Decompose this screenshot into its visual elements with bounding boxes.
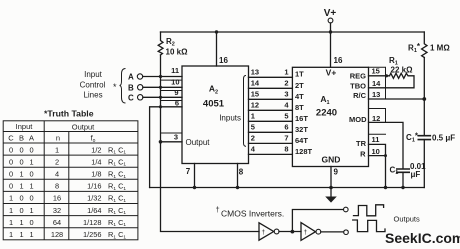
- wire input C to pin 9: [143, 96, 182, 98]
- svg-text:64: 64: [53, 218, 61, 227]
- svg-text:1/4: 1/4: [91, 157, 101, 166]
- label TR: [356, 139, 367, 148]
- svg-text:†: †: [262, 229, 266, 236]
- node junction dots on control lines: [159, 75, 162, 109]
- svg-text:R1 C1: R1 C1: [108, 218, 126, 228]
- node terminal C: [138, 95, 143, 100]
- resistor R1* 1 MOhm: [422, 32, 427, 58]
- node junction V+ rail: [329, 30, 332, 33]
- label B: [128, 84, 134, 93]
- svg-text:1: 1: [284, 68, 288, 77]
- svg-text:0: 0: [19, 157, 23, 166]
- label C: [128, 94, 134, 103]
- svg-text:C: C: [8, 133, 14, 142]
- svg-text:1: 1: [9, 194, 13, 203]
- wire R/C pin 13: [369, 98, 425, 100]
- label mux pin numbers left column: [251, 68, 260, 154]
- svg-text:3: 3: [174, 133, 178, 142]
- svg-text:C1: C1: [390, 166, 399, 177]
- svg-text:†: †: [216, 205, 220, 214]
- ground: [325, 188, 337, 203]
- svg-text:R1 C1: R1 C1: [108, 194, 126, 204]
- svg-text:10: 10: [171, 78, 179, 87]
- svg-text:*Truth Table: *Truth Table: [44, 109, 94, 119]
- wire V+ stub to 2240 pin 16: [330, 23, 332, 67]
- wire mux ladder rungs: [249, 77, 293, 154]
- svg-text:1/2: 1/2: [91, 145, 101, 154]
- svg-text:Input: Input: [84, 70, 103, 79]
- label 2240: [316, 108, 337, 119]
- svg-text:REG: REG: [350, 71, 366, 80]
- svg-text:5: 5: [284, 112, 288, 121]
- label 0.5 uF: [432, 134, 455, 143]
- label MOD: [349, 115, 367, 124]
- wire 2240 pin 9: [330, 167, 332, 188]
- node junction pin 10: [384, 154, 387, 157]
- wire R1* to R/C node: [423, 58, 425, 136]
- wire 4051 pin stub ticks: [161, 80, 182, 133]
- svg-text:TR: TR: [356, 139, 367, 148]
- label pin 3: [174, 133, 178, 142]
- svg-text:C1*: C1*: [406, 132, 419, 144]
- wire inverter1 to inverter2: [279, 231, 301, 233]
- svg-text:8T: 8T: [295, 103, 304, 112]
- IC A2 4051 multiplexer: [182, 66, 249, 164]
- label 16 (4051): [219, 56, 228, 65]
- label pin 9: [334, 168, 339, 177]
- svg-text:1: 1: [9, 206, 13, 215]
- svg-text:4: 4: [284, 101, 289, 110]
- label 0.01: [410, 162, 426, 171]
- svg-text:7: 7: [186, 167, 191, 176]
- svg-text:64T: 64T: [295, 136, 308, 145]
- node terminal B: [138, 85, 143, 90]
- wire 4051 pin 16: [216, 32, 218, 66]
- svg-text:0: 0: [19, 145, 23, 154]
- svg-text:128: 128: [51, 230, 63, 239]
- svg-text:fo: fo: [91, 134, 96, 145]
- svg-text:Output: Output: [186, 138, 211, 147]
- svg-text:R1 C1: R1 C1: [108, 206, 126, 216]
- svg-text:16T: 16T: [295, 114, 308, 123]
- svg-text:0: 0: [19, 194, 23, 203]
- svg-text:1: 1: [19, 170, 23, 179]
- svg-text:μF: μF: [411, 170, 421, 179]
- svg-text:6: 6: [175, 99, 179, 108]
- svg-text:GND: GND: [322, 155, 341, 165]
- svg-text:1: 1: [19, 230, 23, 239]
- label R: [360, 150, 366, 159]
- wire R pin 10: [369, 155, 386, 157]
- label 10 kOhm: [166, 48, 189, 57]
- wire inverter 2 output: [321, 231, 344, 233]
- label pin 11: [171, 66, 179, 75]
- waveform output 1: [354, 205, 384, 216]
- svg-text:1/128: 1/128: [83, 218, 102, 227]
- wire TR pin 11: [369, 144, 386, 187]
- svg-text:C: C: [128, 94, 134, 103]
- svg-text:22 kΩ: 22 kΩ: [391, 66, 414, 75]
- svg-text:0: 0: [9, 170, 13, 179]
- svg-text:Output: Output: [72, 123, 95, 132]
- svg-text:1 MΩ: 1 MΩ: [430, 44, 450, 53]
- label pin 12: [372, 114, 380, 123]
- wire 2240 pin 12 stub: [369, 109, 386, 123]
- label CMOS inverters note: [216, 205, 285, 219]
- wire C1* to ground bus: [423, 140, 425, 188]
- wire 4051 pin 6 to ground bus: [150, 107, 182, 188]
- svg-text:13: 13: [372, 90, 380, 99]
- label pin 13: [372, 90, 380, 99]
- svg-text:V+: V+: [324, 8, 337, 19]
- wire ground bus: [150, 187, 425, 189]
- svg-text:B: B: [128, 84, 134, 93]
- svg-text:1/16: 1/16: [87, 182, 101, 191]
- wire junction up to output 1 terminal: [292, 210, 343, 232]
- svg-text:R1 C1: R1 C1: [108, 170, 126, 180]
- label TBO: [350, 82, 366, 91]
- svg-text:9: 9: [174, 88, 178, 97]
- label pin 10: [171, 78, 179, 87]
- svg-text:5: 5: [251, 123, 255, 132]
- label brace: [120, 69, 126, 104]
- wire TBO pin 14: [369, 87, 386, 89]
- wire 2240 pin 11/10 stub: [369, 133, 386, 135]
- svg-text:R1 C1: R1 C1: [108, 182, 126, 192]
- svg-text:128T: 128T: [295, 147, 313, 156]
- svg-text:A: A: [128, 73, 134, 82]
- label dagger inverter 1: [262, 229, 266, 236]
- label 1 MOhm: [430, 44, 450, 53]
- label R/C: [353, 91, 367, 100]
- label table rows: [9, 145, 126, 240]
- label 22 kOhm: [391, 66, 414, 75]
- svg-text:3: 3: [284, 90, 288, 99]
- svg-text:13: 13: [251, 68, 259, 77]
- svg-text:2T: 2T: [295, 81, 304, 90]
- svg-text:SeekIC.com: SeekIC.com: [385, 230, 460, 246]
- wire R2 to output node and inverter input: [161, 55, 260, 232]
- waveform output 2: [353, 220, 385, 232]
- svg-text:32: 32: [53, 206, 61, 215]
- svg-text:8: 8: [239, 168, 244, 177]
- svg-text:0: 0: [29, 170, 33, 179]
- svg-text:10 kΩ: 10 kΩ: [166, 48, 189, 57]
- node junction pin 15: [385, 74, 388, 77]
- label R1 (22k): [389, 56, 398, 67]
- svg-text:8: 8: [55, 182, 59, 191]
- node V+ terminal: [328, 18, 333, 23]
- label 4051: [203, 99, 225, 110]
- svg-text:1: 1: [55, 145, 59, 154]
- svg-text:0: 0: [29, 145, 33, 154]
- svg-text:Input: Input: [16, 122, 34, 131]
- svg-text:R1*: R1*: [408, 42, 421, 54]
- svg-text:15: 15: [251, 90, 259, 99]
- node junction between inverters: [291, 230, 295, 234]
- label Output: [186, 138, 211, 147]
- svg-text:2: 2: [284, 79, 288, 88]
- node terminal A: [137, 74, 142, 79]
- svg-text:0: 0: [29, 194, 33, 203]
- node output terminal 1: [344, 207, 349, 212]
- node junction dots on ground bus: [193, 186, 405, 190]
- svg-text:12: 12: [251, 101, 259, 110]
- inverter U3 CMOS inverter 1: [259, 223, 279, 240]
- label pin 9: [174, 88, 178, 97]
- node junction pin16 rail: [215, 30, 218, 33]
- svg-text:16: 16: [334, 56, 343, 65]
- svg-text:R: R: [360, 150, 366, 159]
- svg-text:4: 4: [251, 145, 256, 154]
- svg-text:12: 12: [372, 114, 380, 123]
- svg-text:16: 16: [219, 56, 228, 65]
- svg-text:15: 15: [372, 67, 380, 76]
- label pin 8: [239, 168, 244, 177]
- svg-text:0: 0: [19, 206, 23, 215]
- svg-text:Outputs: Outputs: [394, 215, 421, 224]
- wire C to ground bus: [402, 172, 404, 187]
- label pin 15: [372, 67, 380, 76]
- svg-text:1T: 1T: [295, 70, 304, 79]
- svg-text:R/C: R/C: [353, 91, 367, 100]
- node junction R/C node: [422, 97, 426, 101]
- label uF: [411, 170, 421, 179]
- svg-text:1: 1: [19, 182, 23, 191]
- node junction pin 3: [159, 140, 163, 144]
- capacitor C1* 0.5uF: [418, 136, 430, 140]
- svg-text:9: 9: [334, 168, 339, 177]
- IC A1 2240 programmable timer: [292, 67, 368, 166]
- svg-text:1: 1: [29, 230, 33, 239]
- svg-text:4: 4: [55, 170, 59, 179]
- label 2240 counter taps: [295, 70, 313, 156]
- svg-text:n: n: [56, 134, 60, 143]
- wire REG pin 15: [369, 75, 390, 77]
- wire 4051 pin 7: [194, 164, 196, 188]
- label table headers: [16, 122, 96, 132]
- svg-text:14: 14: [372, 79, 381, 88]
- svg-text:*: *: [113, 82, 117, 92]
- label C1: [390, 166, 399, 177]
- label 2240 pin numbers left column: [284, 68, 289, 154]
- label REG: [350, 71, 366, 80]
- wire MOD pin 12 to bypass cap: [369, 122, 404, 168]
- label Inputs: [219, 114, 241, 123]
- svg-text:10: 10: [372, 147, 380, 156]
- wire V+ top rail: [161, 31, 425, 33]
- svg-text:1: 1: [9, 230, 13, 239]
- label truth table title: [44, 109, 94, 119]
- svg-text:R2: R2: [166, 37, 175, 48]
- svg-text:1/8: 1/8: [91, 170, 101, 179]
- svg-text:1/64: 1/64: [87, 206, 101, 215]
- label A: [128, 73, 134, 82]
- label R1* (1M): [408, 42, 421, 54]
- svg-text:A1: A1: [320, 94, 329, 106]
- label SeekIC watermark: [385, 230, 460, 246]
- node output terminal 2: [344, 230, 349, 235]
- label pin 11: [372, 135, 380, 144]
- label A1: [320, 94, 329, 106]
- svg-text:4051: 4051: [203, 99, 225, 110]
- svg-text:32T: 32T: [295, 125, 308, 134]
- svg-text:Control: Control: [80, 81, 106, 90]
- svg-text:1: 1: [251, 112, 255, 121]
- label Outputs: [394, 215, 421, 224]
- svg-text:0.5 μF: 0.5 μF: [432, 134, 455, 143]
- wire 4051 pin 8: [237, 164, 239, 188]
- label A2: [209, 84, 218, 96]
- svg-text:1: 1: [29, 206, 33, 215]
- label pin 7: [186, 167, 191, 176]
- svg-text:4T: 4T: [295, 92, 304, 101]
- svg-text:0: 0: [29, 218, 33, 227]
- svg-text:16: 16: [53, 194, 61, 203]
- label dagger inverter 2: [304, 229, 308, 236]
- svg-text:1: 1: [29, 182, 33, 191]
- svg-text:2: 2: [55, 157, 59, 166]
- svg-text:14: 14: [251, 79, 260, 88]
- svg-text:MOD: MOD: [349, 115, 367, 124]
- label pin 14: [372, 79, 381, 88]
- svg-text:A2: A2: [209, 84, 218, 96]
- label pin 6: [175, 99, 179, 108]
- svg-text:Lines: Lines: [83, 91, 102, 100]
- svg-text:1/32: 1/32: [87, 194, 101, 203]
- capacitor C 0.01uF: [397, 169, 409, 172]
- label V+: [324, 8, 337, 19]
- svg-text:7: 7: [284, 134, 288, 143]
- label V+ (2240): [326, 68, 337, 78]
- label C1*: [406, 132, 419, 144]
- wire 4051 pin 3 output: [161, 141, 183, 143]
- svg-text:0: 0: [9, 182, 13, 191]
- wire input A to pin 11: [143, 76, 182, 78]
- svg-text:1: 1: [29, 157, 33, 166]
- svg-text:R1 C1: R1 C1: [108, 230, 126, 240]
- svg-text:11: 11: [171, 66, 179, 75]
- svg-text:†: †: [304, 229, 308, 236]
- label R2: [166, 37, 175, 48]
- svg-text:B: B: [19, 133, 24, 142]
- truth table: [3, 121, 138, 240]
- label GND: [322, 155, 341, 165]
- wire 2240 pin 15 stub: [369, 67, 386, 99]
- svg-text:0: 0: [9, 157, 13, 166]
- svg-text:6: 6: [284, 123, 288, 132]
- svg-text:1: 1: [9, 218, 13, 227]
- svg-text:R1 C1: R1 C1: [108, 157, 126, 167]
- wire input B to pin 10: [143, 86, 182, 88]
- svg-text:2240: 2240: [316, 108, 337, 119]
- label 16 (2240): [334, 56, 343, 65]
- svg-text:R1 C1: R1 C1: [108, 145, 126, 155]
- label pin 10: [372, 147, 380, 156]
- svg-text:8: 8: [284, 145, 288, 154]
- svg-text:2: 2: [251, 134, 255, 143]
- svg-text:Inputs: Inputs: [219, 114, 241, 123]
- label input control lines: [80, 70, 117, 100]
- svg-text:CMOS Inverters.: CMOS Inverters.: [221, 209, 284, 219]
- svg-text:V+: V+: [326, 68, 337, 78]
- svg-text:1: 1: [19, 218, 23, 227]
- wire inputs bracket: [244, 76, 246, 147]
- svg-text:1/256: 1/256: [83, 230, 102, 239]
- svg-text:11: 11: [372, 135, 380, 144]
- svg-text:TBO: TBO: [350, 82, 366, 91]
- svg-text:0: 0: [9, 145, 13, 154]
- inverter U4 CMOS inverter 2: [301, 223, 321, 241]
- resistor R2 10k: [158, 32, 163, 55]
- svg-text:A: A: [29, 133, 34, 142]
- resistor R1 22 kOhm: [386, 73, 415, 88]
